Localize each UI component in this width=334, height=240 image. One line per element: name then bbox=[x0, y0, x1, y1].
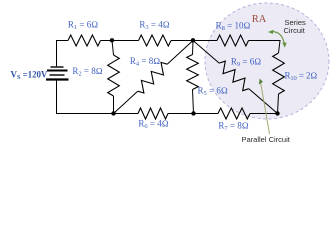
resistor R1 bbox=[68, 35, 101, 46]
wire R10 to node E bbox=[278, 94, 279, 114]
wire R6 to R7 bbox=[168, 113, 218, 115]
series circuit green curved arrow bbox=[268, 30, 287, 48]
node A junction dot bbox=[110, 38, 114, 42]
resistor R8 bbox=[217, 35, 249, 46]
battery VS plate short 1 bbox=[51, 66, 64, 68]
battery VS plate short 2 bbox=[50, 74, 65, 76]
svg-text:R9 = 6Ω: R9 = 6Ω bbox=[231, 57, 261, 69]
wire R7 to node E bbox=[250, 113, 278, 115]
node B junction dot bbox=[191, 38, 195, 42]
wire top-left horizontal bbox=[56, 40, 68, 42]
svg-text:R1 = 6Ω: R1 = 6Ω bbox=[68, 20, 98, 32]
resistor R7 bbox=[218, 108, 250, 119]
svg-text:R10 = 2Ω: R10 = 2Ω bbox=[285, 71, 318, 83]
resistor R5 bbox=[187, 41, 199, 114]
svg-text:Parallel Circuit: Parallel Circuit bbox=[242, 135, 291, 144]
node C junction dot bbox=[111, 111, 115, 115]
resistor R2 bbox=[108, 41, 120, 114]
wire bottom-left horizontal bbox=[56, 113, 138, 115]
wire left vertical top bbox=[56, 40, 58, 66]
wire left vertical bottom bbox=[56, 81, 58, 114]
svg-text:R4 = 8Ω: R4 = 8Ω bbox=[130, 56, 160, 68]
svg-text:R6 = 4Ω: R6 = 4Ω bbox=[138, 119, 168, 131]
node E junction dot bbox=[275, 111, 279, 115]
resistor R6 bbox=[138, 108, 168, 119]
parallel circuit callout arrow bbox=[259, 79, 270, 135]
svg-text:Circuit: Circuit bbox=[284, 26, 306, 35]
node D junction dot bbox=[191, 111, 195, 115]
resistor R3 bbox=[139, 35, 172, 46]
svg-text:VS =120V: VS =120V bbox=[11, 69, 48, 81]
dashed ellipse region RA bbox=[205, 3, 329, 119]
svg-text:RA: RA bbox=[252, 14, 267, 25]
wire R1 to node A to R3 bbox=[101, 40, 139, 42]
resistor R4 diagonal bbox=[114, 41, 194, 114]
battery VS plate long 1 bbox=[47, 70, 68, 72]
svg-text:R7 = 8Ω: R7 = 8Ω bbox=[218, 121, 248, 133]
svg-text:R3 = 4Ω: R3 = 4Ω bbox=[139, 20, 169, 32]
wire top-right corner bbox=[249, 41, 281, 54]
battery VS plate long 2 bbox=[46, 78, 69, 80]
resistor R10 bbox=[273, 53, 285, 94]
wire node B to R8 bbox=[171, 40, 217, 42]
svg-text:R2 = 8Ω: R2 = 8Ω bbox=[72, 66, 102, 78]
svg-text:R5 = 6Ω: R5 = 6Ω bbox=[198, 86, 228, 98]
resistor R9 diagonal bbox=[193, 41, 278, 114]
svg-text:R8 = 10Ω: R8 = 10Ω bbox=[216, 21, 251, 33]
